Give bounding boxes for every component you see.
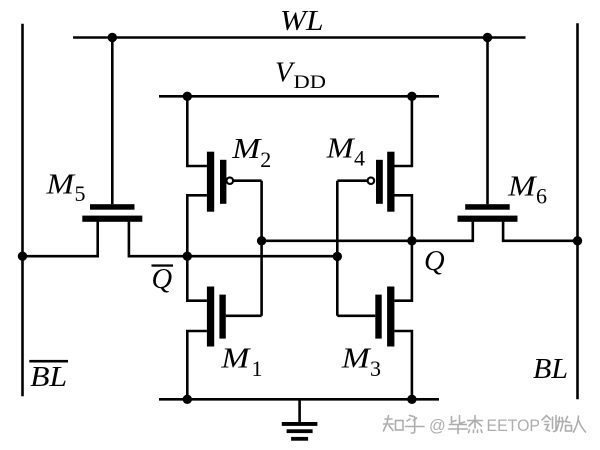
svg-text:M: M: [231, 134, 263, 165]
wire M3 source to ground: [394, 331, 412, 399]
char ren: [574, 416, 586, 432]
junction dot ground-M3: [407, 395, 416, 404]
transistor M3 (NMOS) body: [375, 287, 394, 347]
wire BLbar bitline (left vertical): [21, 24, 24, 397]
svg-text:M: M: [341, 344, 373, 375]
label M3: [341, 344, 381, 382]
wire M4 gate stub: [337, 179, 367, 182]
svg-text:BL: BL: [533, 354, 568, 385]
label M4: [326, 134, 365, 171]
wire BLbar to M5 source: [23, 222, 98, 257]
transistor M4 (PMOS) body: [368, 152, 395, 212]
wire M2 drain to node Qbar to M1 drain: [187, 195, 207, 300]
wire right inverter gates vertical: [336, 181, 339, 316]
wire M5 drain to node Qbar and to right inverter gates: [129, 222, 337, 257]
wire M6 drain to BL: [503, 222, 577, 241]
svg-text:M: M: [45, 169, 76, 200]
svg-text:M: M: [326, 134, 357, 165]
transistor M2 (PMOS) body: [207, 152, 233, 212]
wire M1 gate stub: [226, 314, 262, 317]
wire BL bitline (right vertical): [576, 23, 579, 399]
label M1: [220, 344, 262, 382]
char hu: [406, 416, 425, 434]
watermark zhihu: [384, 416, 586, 434]
junction dot ground-M1: [183, 395, 192, 404]
svg-text:EETOP: EETOP: [487, 417, 541, 435]
svg-text:3: 3: [370, 356, 381, 381]
label VDD: [275, 57, 326, 93]
wire ground stub: [298, 399, 301, 423]
wire VDD rail: [159, 95, 439, 98]
svg-text:DD: DD: [294, 72, 327, 93]
junction dot WL-M5: [108, 33, 117, 42]
char chuang: [542, 416, 556, 432]
wire M6 gate from WL: [486, 38, 489, 205]
junction dot VDD-M4: [407, 92, 416, 101]
junction dot BLbar node: [18, 252, 27, 261]
wire VDD to M4 source: [395, 96, 412, 166]
junction dot node Qbar: [183, 252, 192, 261]
wire M5 gate from WL: [111, 38, 114, 205]
svg-text:Q: Q: [152, 264, 173, 295]
wire ground rail: [159, 398, 439, 401]
svg-text:M: M: [507, 171, 538, 202]
junction dot WL-M6: [483, 33, 492, 42]
char bi: [449, 416, 468, 434]
svg-text:M: M: [220, 344, 252, 375]
char jie: [468, 416, 483, 433]
svg-text:4: 4: [354, 145, 365, 170]
label node Qbar: [152, 264, 174, 295]
wire M3 gate stub: [337, 314, 375, 317]
svg-text:BL: BL: [30, 362, 67, 393]
svg-text:2: 2: [260, 147, 271, 172]
junction dot VDD-M2: [183, 92, 192, 101]
svg-text:WL: WL: [280, 6, 324, 37]
label M2: [231, 134, 271, 172]
label M6: [507, 171, 547, 208]
wire VDD to M2 source: [187, 96, 207, 166]
label M5: [45, 169, 85, 206]
wire M1 source to ground: [187, 331, 207, 399]
ground symbol bars: [282, 422, 318, 441]
junction dot right gates cross: [333, 252, 342, 261]
junction dot left gates cross: [257, 236, 266, 245]
char shi: [557, 417, 571, 432]
svg-text:Q: Q: [424, 246, 445, 277]
svg-text:6: 6: [536, 183, 547, 208]
transistor M1 (NMOS) body: [207, 287, 226, 347]
svg-text:@: @: [429, 417, 446, 435]
transistor M5 (NMOS access, gate up) body: [82, 204, 142, 222]
svg-text:5: 5: [75, 181, 86, 206]
char zhi: [384, 416, 394, 432]
junction dot node Q: [407, 236, 416, 245]
wire left inverter gates vertical: [260, 181, 263, 316]
label BLbar: [29, 360, 68, 393]
wire M4 drain to node Q to M3 drain: [394, 195, 412, 300]
wire WL word line rail: [73, 36, 526, 39]
wire node Q to left gates and to M6 source: [262, 222, 473, 241]
wire M2 gate stub: [234, 179, 262, 182]
junction dot BL node: [573, 236, 582, 245]
transistor M6 (NMOS access, gate up) body: [458, 204, 518, 222]
svg-text:1: 1: [252, 356, 263, 381]
